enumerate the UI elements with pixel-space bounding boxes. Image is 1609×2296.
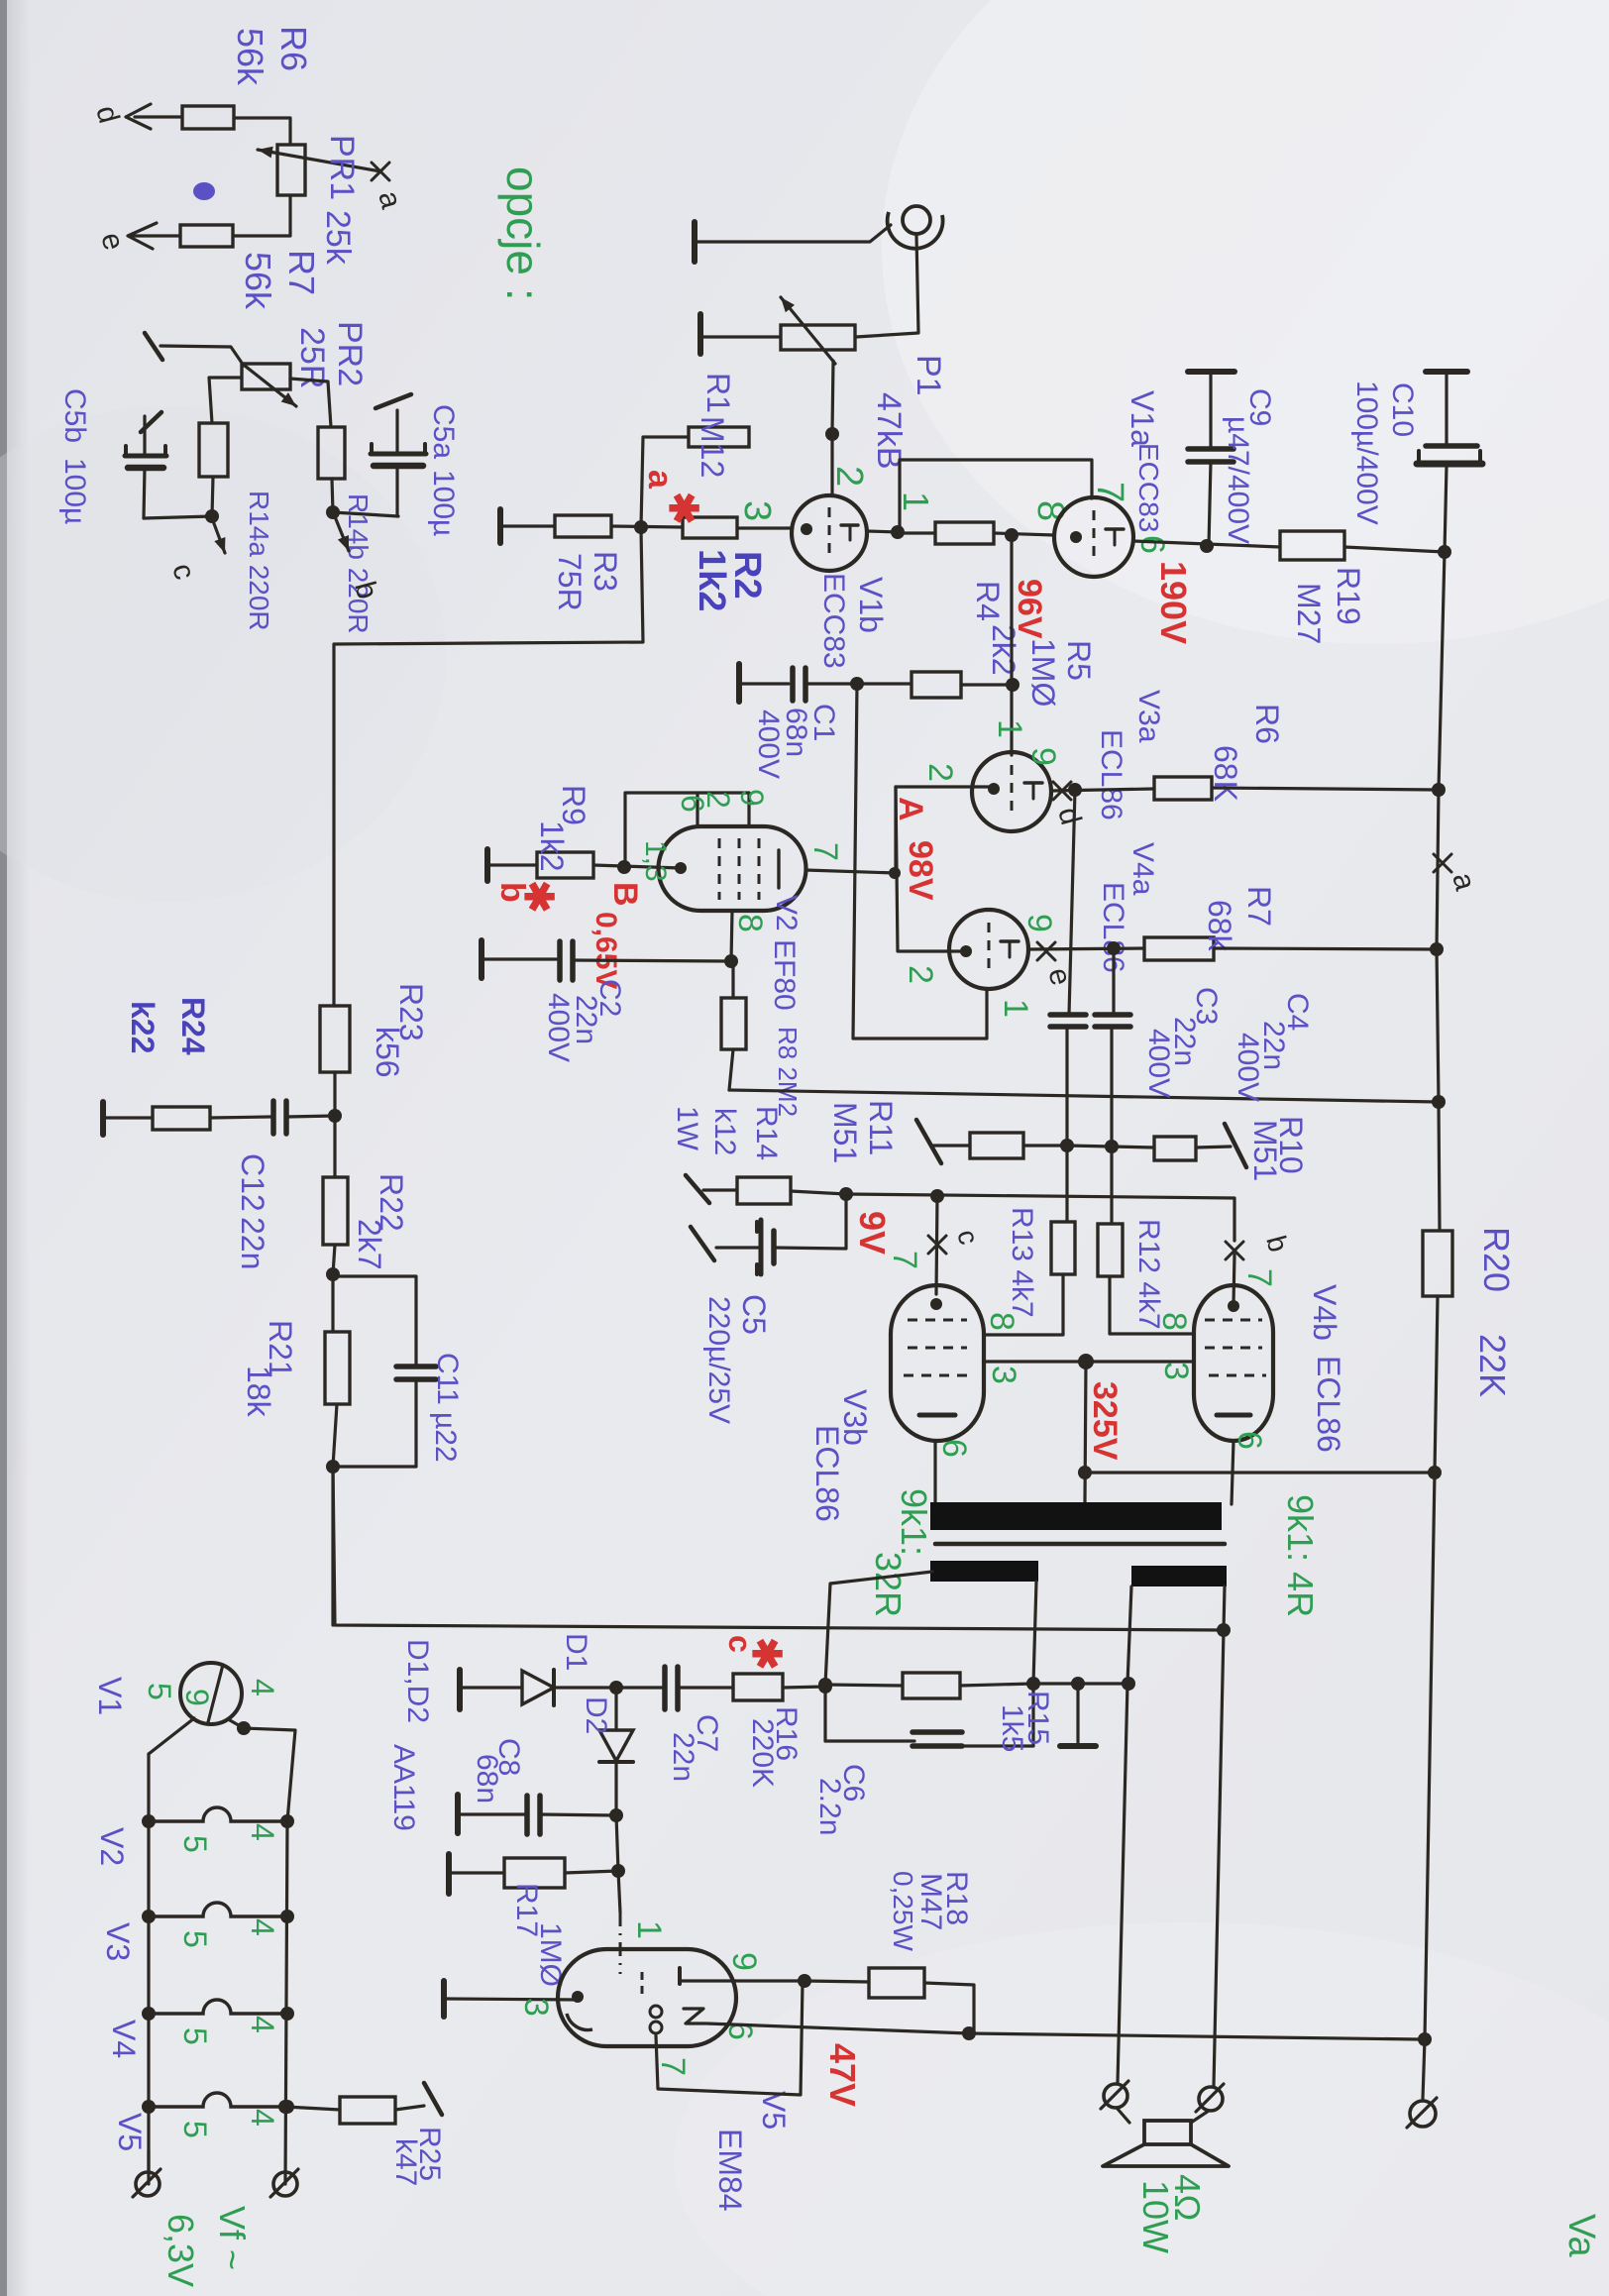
svg-text:4: 4: [245, 2109, 280, 2127]
svg-text:1: 1: [991, 719, 1028, 738]
arrow from R14a node: [212, 518, 225, 553]
switch tick C5: [691, 1227, 714, 1260]
resistor R25: [340, 2097, 395, 2124]
svg-text:9k1: 4R: 9k1: 4R: [1280, 1494, 1321, 1617]
svg-text:1: 1: [896, 492, 936, 511]
svg-text:ECL86: ECL86: [1311, 1356, 1346, 1453]
svg-text:22K: 22K: [1472, 1334, 1513, 1397]
wire node to feedback: [331, 1467, 334, 1625]
svg-text:C11: C11: [431, 1353, 464, 1405]
wire node to V3a pin1: [1010, 686, 1013, 755]
svg-text:µ22: µ22: [429, 1412, 462, 1463]
svg-text:M51: M51: [827, 1102, 863, 1163]
svg-text:96V: 96V: [1011, 579, 1048, 639]
svg-text:100µ/400V: 100µ/400V: [1350, 381, 1383, 525]
svg-text:5: 5: [177, 2121, 213, 2138]
resistor R5: [912, 672, 961, 698]
svg-text:M12: M12: [695, 416, 730, 478]
wire PR2 to R14b: [290, 379, 331, 427]
resistor R13: [1051, 1222, 1075, 1274]
svg-text:10W: 10W: [1135, 2180, 1176, 2253]
svg-text:3: 3: [985, 1366, 1022, 1384]
svg-text:25k: 25k: [319, 210, 357, 266]
svg-text:32R: 32R: [868, 1552, 909, 1617]
wire to V3b pin7: [936, 1196, 937, 1294]
wire secondary 4R left down: [1118, 1586, 1131, 2083]
wire heater right rail: [285, 1821, 287, 2184]
node x a: [372, 163, 389, 180]
svg-text:k22: k22: [125, 1001, 161, 1053]
switch tick R14: [686, 1175, 709, 1203]
svg-text:ECL86: ECL86: [1095, 729, 1127, 820]
transformer core: [935, 1542, 1225, 1547]
svg-text:R4: R4: [970, 581, 1006, 621]
svg-text:a: a: [641, 470, 679, 490]
svg-text:6,3V: 6,3V: [161, 2214, 201, 2287]
tube V2 EF80: [659, 826, 806, 911]
ground: [100, 1102, 106, 1135]
arrow d: [126, 104, 151, 129]
svg-text:1: 1: [997, 999, 1034, 1018]
svg-text:6: 6: [1133, 535, 1171, 554]
svg-text:2: 2: [902, 965, 939, 984]
capacitor C3: [1069, 790, 1075, 1015]
svg-text:3: 3: [517, 1998, 555, 2017]
heater V5: [149, 2093, 287, 2107]
wire 325V to rail: [1085, 1471, 1435, 1474]
svg-text:9: 9: [179, 1689, 215, 1706]
svg-text:0,65V: 0,65V: [590, 912, 622, 989]
svg-text:ECC83: ECC83: [1133, 443, 1164, 532]
wire R19 to rail: [1344, 547, 1445, 552]
svg-text:✱: ✱: [744, 1637, 788, 1671]
svg-text:22n: 22n: [235, 1217, 270, 1269]
svg-text:3: 3: [736, 500, 778, 521]
svg-text:R19: R19: [1331, 567, 1366, 625]
svg-text:V4b: V4b: [1307, 1284, 1342, 1341]
resistor R19: [1280, 531, 1344, 560]
ground: [441, 1981, 447, 2017]
resistor R9: [537, 852, 593, 878]
resistor R23: [320, 1006, 350, 1072]
resistor R4: [935, 522, 994, 544]
svg-text:R14a 220R: R14a 220R: [244, 491, 274, 631]
wire down to C6: [823, 1685, 826, 1741]
svg-text:R3: R3: [588, 551, 623, 592]
capacitor C7: [662, 1667, 668, 1709]
svg-text:100µ: 100µ: [427, 470, 460, 536]
heater V2: [149, 1807, 287, 1821]
svg-text:1,3: 1,3: [639, 840, 672, 882]
potentiometer P1: [781, 325, 855, 350]
potentiometer PR1: [277, 145, 305, 195]
wire 96V node down: [1010, 535, 1013, 686]
connector: [1104, 2084, 1127, 2108]
wire R14a down: [212, 477, 213, 516]
wire V3a V4a grids: [896, 787, 966, 951]
svg-text:400V: 400V: [1142, 1029, 1175, 1098]
ground: [484, 849, 490, 881]
switch tick R25: [424, 2083, 442, 2115]
switch contact above PR2: [145, 333, 162, 360]
wire bracket pin1 to V1a pin7: [900, 460, 1092, 532]
svg-text:✱: ✱: [516, 880, 560, 914]
capacitor C1: [790, 668, 796, 701]
wire P1 wiper to node: [832, 361, 833, 432]
svg-text:V5: V5: [112, 2113, 148, 2151]
wire heater right top: [244, 1728, 295, 1821]
svg-text:R6: R6: [1249, 704, 1285, 744]
svg-text:7: 7: [806, 842, 844, 861]
svg-text:M51: M51: [1247, 1120, 1283, 1181]
wire to C7: [616, 1686, 663, 1689]
svg-text:98V: 98V: [902, 840, 939, 901]
wire V3a pin9 to R6: [1051, 789, 1154, 791]
wire V1b plate pin2: [830, 434, 833, 495]
resistor R6: [182, 106, 234, 129]
node x a right: [1434, 854, 1451, 872]
switch tick R10: [1225, 1124, 1246, 1167]
wire diode node to V5 pin1: [616, 1815, 618, 1871]
heater V3: [149, 1903, 287, 1916]
resistor R7: [180, 225, 233, 247]
wire V2 pin8 down: [731, 911, 732, 961]
svg-text:R13 4k7: R13 4k7: [1006, 1207, 1038, 1318]
ground: [457, 1670, 463, 1709]
svg-text:ECL86: ECL86: [809, 1425, 845, 1522]
svg-text:190V: 190V: [1153, 561, 1194, 644]
wire screen rail: [729, 1090, 1439, 1102]
resistor R14: [737, 1177, 791, 1204]
svg-text:400V: 400V: [1232, 1033, 1264, 1102]
svg-text:7: 7: [654, 2057, 692, 2076]
switch contact above C5a: [375, 394, 411, 408]
svg-text:100µ: 100µ: [58, 458, 91, 524]
svg-text:V3a: V3a: [1132, 690, 1165, 743]
node x b: [1226, 1242, 1243, 1259]
svg-text:B: B: [606, 882, 644, 907]
wire V4b pin6: [1232, 1441, 1234, 1504]
svg-text:22n: 22n: [667, 1732, 699, 1782]
wire secondary left: [825, 1572, 932, 1685]
svg-text:V3: V3: [100, 1922, 136, 1961]
switch contact above C5b: [141, 412, 161, 432]
resistor R24: [153, 1107, 210, 1130]
svg-text:1: 1: [630, 1920, 668, 1939]
svg-text:6: 6: [935, 1439, 973, 1458]
wire V2 pin7 to V3a pin2: [805, 787, 994, 873]
resistor R11: [970, 1133, 1023, 1158]
svg-text:220µ/25V: 220µ/25V: [702, 1296, 735, 1424]
wire R4 to node: [994, 533, 1054, 535]
svg-text:0,25W: 0,25W: [888, 1871, 918, 1951]
wire R12 to V4b pin8: [1110, 1276, 1194, 1334]
svg-text:R11: R11: [863, 1100, 899, 1155]
resistor R16: [733, 1674, 783, 1700]
svg-text:C5: C5: [736, 1294, 772, 1335]
svg-text:R20: R20: [1476, 1227, 1517, 1292]
svg-text:V1: V1: [92, 1677, 128, 1715]
svg-text:P1: P1: [910, 355, 947, 396]
svg-text:3: 3: [1157, 1362, 1195, 1380]
svg-text:R7: R7: [281, 250, 322, 295]
svg-text:V4a: V4a: [1126, 842, 1159, 896]
svg-text:opcje :: opcje :: [497, 166, 549, 301]
wire heater left rail: [147, 1754, 150, 2184]
transformer secondary winding 32R: [930, 1561, 1038, 1582]
svg-text:D1,D2: D1,D2: [401, 1639, 434, 1723]
svg-text:PR2: PR2: [331, 321, 369, 386]
svg-text:4: 4: [245, 1823, 280, 1841]
diode D2: [614, 1688, 617, 1730]
capacitor C5b: [125, 454, 166, 459]
wire V2 top bracket: [625, 793, 749, 869]
svg-text:1MØ: 1MØ: [1025, 638, 1061, 707]
wire V5 pin9: [680, 1979, 804, 1982]
svg-text:V2: V2: [94, 1827, 130, 1866]
svg-text:AA119: AA119: [387, 1744, 420, 1831]
resistor R20: [1423, 1231, 1452, 1296]
arrow e: [128, 223, 157, 249]
svg-text:9k1:: 9k1:: [894, 1488, 934, 1556]
wire pin3 bus: [984, 1360, 1194, 1363]
resistor R17: [504, 1858, 565, 1888]
resistor R6 68k: [1154, 777, 1212, 800]
svg-text:k47: k47: [389, 2138, 422, 2186]
svg-text:R8 2M2: R8 2M2: [773, 1027, 803, 1117]
resistor R3: [555, 515, 611, 537]
capacitor C11: [333, 1276, 416, 1365]
svg-text:2: 2: [921, 763, 959, 782]
svg-text:k12: k12: [708, 1108, 741, 1155]
svg-text:8: 8: [1155, 1312, 1193, 1331]
heater V4: [149, 2000, 287, 2014]
svg-text:1k5: 1k5: [996, 1704, 1028, 1752]
svg-text:D2: D2: [580, 1696, 612, 1734]
ink blob: [193, 182, 215, 200]
wire right rail lower: [1423, 1296, 1438, 2099]
switch tick R11: [916, 1120, 941, 1163]
terminal heater left: [136, 2172, 160, 2196]
resistor R22: [323, 1177, 348, 1245]
svg-text:7: 7: [886, 1251, 923, 1269]
wire R6 to rail: [1212, 788, 1439, 790]
svg-text:5: 5: [177, 1930, 213, 1948]
resistor R8: [721, 998, 746, 1049]
wire R23 to node: [333, 1072, 336, 1116]
capacitor C5a: [371, 452, 426, 457]
ground: [1076, 1684, 1079, 1742]
capacitor C9: [1188, 369, 1234, 375]
wire R11-R10 link: [1067, 1146, 1112, 1147]
wire V5 pin6 to rail: [706, 2023, 969, 2033]
tube V5 EM84: [558, 1949, 736, 2046]
resistor R21: [325, 1332, 350, 1404]
svg-text:Va: Va: [1560, 2214, 1602, 2258]
svg-text:R7: R7: [1241, 886, 1277, 927]
resistor R2: [683, 517, 737, 538]
svg-text:56k: 56k: [230, 28, 270, 86]
speaker: [1117, 2108, 1129, 2123]
svg-text:1W: 1W: [671, 1106, 703, 1151]
wire node to C5a: [333, 512, 398, 516]
svg-text:R9: R9: [556, 785, 591, 825]
svg-text:9: 9: [725, 1952, 763, 1971]
svg-text:68n: 68n: [471, 1754, 503, 1804]
tube V4b ECL86: [1194, 1285, 1273, 1441]
resistor R12: [1098, 1224, 1123, 1276]
svg-text:V5: V5: [756, 2091, 792, 2130]
svg-text:PR1: PR1: [323, 135, 361, 200]
wire R9 to V2 grid: [593, 865, 681, 868]
capacitor C6: [825, 1739, 914, 1742]
wire to input d: [135, 115, 182, 118]
svg-text:4: 4: [245, 2016, 280, 2033]
ground: [479, 940, 484, 978]
svg-text:✱: ✱: [661, 492, 704, 525]
wire secondary 4R right down: [1214, 1586, 1225, 2086]
capacitor C10: [1426, 369, 1467, 375]
svg-text:C10: C10: [1386, 383, 1419, 437]
capacitor C2: [557, 941, 563, 980]
resistor R10: [1154, 1137, 1196, 1160]
wire V4a pin1 loop: [853, 684, 987, 1039]
wire R6 to PR1: [234, 118, 290, 145]
svg-text:5: 5: [142, 1683, 177, 1700]
ground: [455, 1795, 461, 1833]
capacitor C5 220u: [759, 1220, 764, 1274]
svg-text:V4: V4: [106, 2020, 142, 2058]
wire secondary mid: [1033, 1682, 1128, 1685]
tube V1 heater: [180, 1663, 242, 1724]
svg-text:9V: 9V: [852, 1211, 893, 1255]
wire V1b pin1 to R4 node: [867, 531, 900, 532]
svg-text:68k: 68k: [1202, 900, 1237, 952]
svg-text:2k7: 2k7: [352, 1219, 387, 1270]
svg-text:2.2n: 2.2n: [813, 1778, 846, 1835]
wire V1a pin6 to R19: [1133, 541, 1280, 547]
wire V3b pin6: [933, 1441, 936, 1504]
transformer secondary winding 4R: [1131, 1566, 1227, 1586]
svg-text:1k2: 1k2: [534, 820, 570, 872]
svg-text:R6: R6: [273, 26, 314, 71]
diode D1: [522, 1671, 554, 1704]
svg-text:68K: 68K: [1208, 745, 1243, 802]
wire to V4b pin7: [1234, 1255, 1234, 1304]
svg-text:2: 2: [700, 791, 736, 809]
tube V3a ECL86: [972, 752, 1051, 831]
svg-text:V1a: V1a: [1125, 390, 1160, 447]
svg-text:M27: M27: [1291, 583, 1327, 644]
terminal heater right: [273, 2172, 297, 2196]
wire R14 to 9V node: [791, 1191, 846, 1194]
svg-text:5: 5: [177, 2027, 213, 2045]
resistor R15: [903, 1673, 960, 1698]
tube V4a ECL86: [949, 910, 1028, 989]
svg-text:47kB: 47kB: [870, 392, 908, 470]
ground: [497, 509, 503, 543]
svg-text:V1b: V1b: [853, 577, 889, 633]
wire 9V rail: [846, 1194, 1234, 1241]
wire feedback long: [333, 1467, 1224, 1630]
resistor R18: [869, 1968, 924, 1998]
svg-text:ECC83: ECC83: [817, 573, 850, 669]
resistor R14b: [318, 427, 345, 479]
svg-text:5: 5: [177, 1835, 213, 1853]
svg-text:325V: 325V: [1086, 1381, 1124, 1461]
wire R5 to pin1 node: [961, 683, 1013, 686]
wire V4a pin9 to R7: [1028, 948, 1144, 949]
svg-text:R14: R14: [750, 1106, 783, 1160]
node x e: [1037, 942, 1055, 960]
wire PR1 to R7: [234, 195, 290, 236]
node x c: [928, 1236, 946, 1254]
svg-text:7: 7: [1240, 1268, 1278, 1287]
wire R14a top: [209, 378, 242, 423]
svg-text:400V: 400V: [752, 710, 785, 779]
svg-text:D1: D1: [560, 1633, 592, 1671]
svg-text:75R: 75R: [552, 553, 588, 611]
svg-text:8: 8: [983, 1312, 1020, 1331]
ground: [736, 664, 742, 702]
svg-text:R1: R1: [700, 373, 736, 413]
connector: [1199, 2087, 1223, 2111]
potentiometer PR2: [242, 364, 290, 389]
wire R8 leads: [731, 961, 734, 998]
wire right rail upper: [1437, 552, 1445, 1231]
wire node to C5b: [144, 516, 212, 518]
svg-text:k56: k56: [370, 1027, 405, 1078]
wire R11 node: [1023, 1144, 1067, 1147]
tube V1a ECC83: [1054, 497, 1133, 577]
wire node up to R1: [641, 437, 689, 527]
resistor R14a: [199, 423, 228, 477]
capacitor C4: [1112, 948, 1115, 1015]
ground: [697, 314, 703, 354]
svg-text:EM84: EM84: [712, 2129, 748, 2212]
wire grid rail top: [334, 529, 643, 1006]
arrow from R14b node: [334, 514, 349, 551]
svg-text:18k: 18k: [241, 1366, 276, 1418]
svg-text:µ47/400V: µ47/400V: [1222, 416, 1254, 544]
wire R7 to rail: [1214, 948, 1437, 949]
svg-text:V2: V2: [770, 895, 803, 931]
wire R2 to V1b grid: [737, 526, 793, 529]
node x d: [1053, 782, 1071, 800]
wire secondary 32R right: [1033, 1582, 1036, 1684]
capacitor C12: [270, 1101, 276, 1134]
svg-text:C5b: C5b: [58, 388, 91, 443]
svg-text:EF80: EF80: [768, 939, 801, 1011]
transformer primary winding: [930, 1502, 1222, 1530]
svg-text:R5: R5: [1061, 640, 1097, 681]
svg-text:47V: 47V: [822, 2043, 863, 2107]
svg-text:220K: 220K: [746, 1718, 779, 1788]
wire V5 pin7 loop: [656, 1983, 803, 2095]
ground: [446, 1854, 452, 1894]
tube V3b ECL86: [891, 1285, 984, 1441]
svg-text:6: 6: [1231, 1431, 1268, 1450]
terminal Va: [1410, 2101, 1436, 2127]
wire jack tip to P1: [856, 235, 918, 337]
svg-text:9: 9: [1024, 747, 1062, 766]
svg-text:1k2: 1k2: [691, 549, 732, 611]
svg-text:9: 9: [1020, 914, 1058, 932]
svg-text:4: 4: [245, 1918, 280, 1936]
svg-text:4: 4: [245, 1679, 280, 1696]
wire pin3 to transformer: [1085, 1362, 1086, 1502]
wire to input e: [132, 234, 180, 237]
